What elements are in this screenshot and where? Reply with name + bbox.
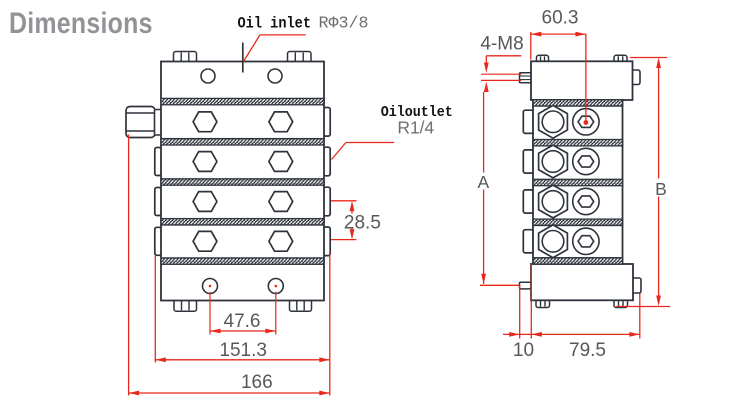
svg-text:47.6: 47.6 [224,311,261,332]
svg-text:R1/4: R1/4 [397,118,434,138]
svg-text:10: 10 [513,340,534,361]
svg-text:A: A [477,172,489,192]
svg-text:RΦ3/8: RΦ3/8 [319,15,369,34]
svg-text:4-M8: 4-M8 [480,34,523,55]
svg-text:151.3: 151.3 [219,340,267,361]
svg-text:B: B [655,179,667,199]
svg-text:28.5: 28.5 [344,213,381,234]
svg-text:Oil inlet: Oil inlet [238,15,312,33]
svg-text:79.5: 79.5 [569,340,606,361]
svg-text:166: 166 [241,372,273,393]
svg-text:Dimensions: Dimensions [9,6,153,39]
svg-text:60.3: 60.3 [542,8,579,29]
